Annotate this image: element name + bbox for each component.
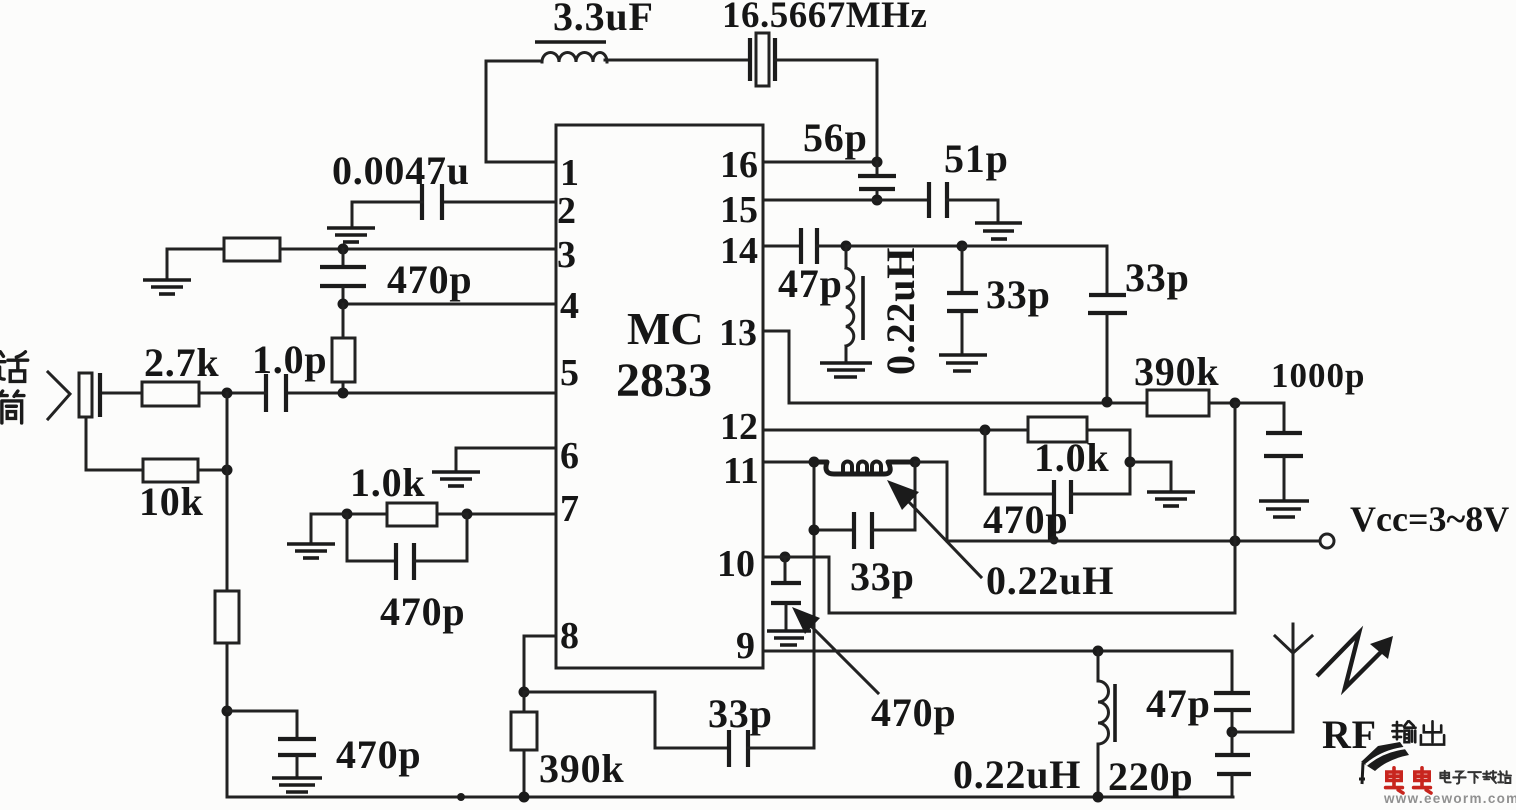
svg-text:10: 10 bbox=[717, 543, 755, 585]
svg-text:1.0p: 1.0p bbox=[252, 337, 327, 382]
glyph 筒 (of 话筒 mic label) bbox=[0, 391, 24, 423]
wire to ground right bbox=[1130, 462, 1171, 490]
node pin5 junction bbox=[338, 388, 349, 399]
wire tank to Vcc rail bbox=[915, 462, 947, 541]
wire pin11 bbox=[763, 461, 814, 464]
arrow callout for L3 0.22uH bbox=[887, 480, 981, 577]
capacitor C7 470p (parallel with R6) bbox=[347, 514, 467, 580]
svg-text:16: 16 bbox=[720, 144, 758, 186]
node antenna junction bbox=[1227, 727, 1238, 738]
wire 33p to pin11 rail bbox=[748, 747, 814, 750]
svg-text:1.0k: 1.0k bbox=[1034, 435, 1109, 480]
node 470p left junction bbox=[222, 706, 233, 717]
svg-text:16.5667MHz: 16.5667MHz bbox=[722, 0, 927, 36]
wire 47p to node bbox=[817, 245, 846, 248]
svg-text:3.3uF: 3.3uF bbox=[553, 0, 654, 39]
svg-text:220p: 220p bbox=[1108, 754, 1193, 799]
svg-text:11: 11 bbox=[723, 450, 759, 492]
svg-text:1.0k: 1.0k bbox=[350, 460, 425, 505]
wire pin9 bbox=[763, 650, 1232, 653]
ground at pin3 resistor bbox=[143, 280, 191, 294]
wire 0.0047u to ground bbox=[352, 202, 422, 226]
wire resistor to bottom rail bbox=[226, 643, 229, 797]
svg-text:56p: 56p bbox=[803, 115, 868, 160]
ground at pin12 network bbox=[1147, 492, 1195, 506]
wire pin10 bbox=[763, 556, 785, 559]
ground at 0.0047u bbox=[327, 228, 375, 242]
capacitor C2 470p (pin3-pin4) bbox=[320, 249, 366, 304]
wire pin13 bbox=[763, 331, 1147, 403]
svg-text:51p: 51p bbox=[944, 136, 1009, 181]
svg-text:47p: 47p bbox=[778, 261, 843, 306]
arrow callout for C9 470p bbox=[792, 607, 878, 693]
capacitor C15 33p (tank) bbox=[814, 462, 915, 549]
svg-text:7: 7 bbox=[560, 488, 579, 530]
capacitor C12 33p (series) bbox=[1088, 295, 1127, 403]
wire Vcc riser bbox=[1234, 403, 1237, 613]
wire pin1 loop to inductor bbox=[486, 61, 556, 162]
capacitor C6 470p (bottom left) bbox=[227, 711, 316, 776]
wire pin3 bbox=[280, 248, 556, 251]
node pin4 junction bbox=[338, 299, 349, 310]
svg-text:470p: 470p bbox=[871, 690, 956, 735]
wire to 33p no2 bbox=[962, 246, 1107, 293]
watermark cap swoosh bbox=[1359, 742, 1409, 784]
svg-text:33p: 33p bbox=[850, 554, 915, 599]
node 33p junction bbox=[957, 241, 968, 252]
IC U1 MC2833 body bbox=[556, 125, 763, 668]
crystal X1 16.5667MHz bbox=[750, 33, 775, 86]
svg-text:0.22uH: 0.22uH bbox=[986, 558, 1114, 603]
node transformer bottom junction bbox=[1093, 792, 1104, 803]
resistor R3 2.7k bbox=[142, 382, 199, 406]
capacitor C9 470p (pin10 to gnd) bbox=[771, 557, 801, 629]
node pin12 junction bbox=[980, 425, 991, 436]
svg-text:0.22uH: 0.22uH bbox=[953, 752, 1081, 797]
svg-text:Vcc=3~8V: Vcc=3~8V bbox=[1350, 499, 1509, 539]
node 390k right junction bbox=[1230, 398, 1241, 409]
svg-text:33p: 33p bbox=[986, 272, 1051, 317]
terminal Vcc bbox=[1320, 534, 1334, 548]
capacitor C14 470p (parallel with R9) bbox=[985, 430, 1130, 539]
capacitor C13 1000p bbox=[1235, 403, 1303, 499]
wire pin2 bbox=[442, 201, 556, 204]
wire pin16 bbox=[763, 161, 877, 164]
node pin10 junction bbox=[780, 552, 791, 563]
svg-text:MC: MC bbox=[627, 303, 704, 354]
svg-text:2: 2 bbox=[557, 190, 576, 232]
svg-text:47p: 47p bbox=[1146, 681, 1211, 726]
node pin8 junction bbox=[519, 687, 530, 698]
node pin9/transformer junction bbox=[1093, 646, 1104, 657]
capacitor C5 51p bbox=[929, 182, 947, 218]
wire pin8 down bbox=[524, 636, 556, 692]
node pin3/470p junction bbox=[338, 244, 349, 255]
wire mic to 2.7k bbox=[100, 392, 142, 395]
svg-text:14: 14 bbox=[720, 230, 758, 272]
svg-text:www.eeworm.com: www.eeworm.com bbox=[1383, 791, 1516, 805]
wire pin11 vertical rail bbox=[813, 462, 816, 748]
svg-text:470p: 470p bbox=[983, 497, 1068, 542]
resistor R7 390k (vertical) bbox=[511, 692, 537, 797]
label RF 输出 bbox=[1322, 712, 1377, 757]
antenna ANT symbol bbox=[1275, 624, 1312, 653]
svg-text:0.22uH: 0.22uH bbox=[878, 247, 923, 375]
svg-text:9: 9 bbox=[736, 625, 755, 667]
ground at pin6 bbox=[432, 472, 480, 486]
node 10k junction bbox=[222, 465, 233, 476]
wire 1.0k left to ground bbox=[311, 514, 347, 542]
svg-text:4: 4 bbox=[560, 285, 579, 327]
capacitor C16 47p (antenna) bbox=[1214, 651, 1251, 732]
resistor R8 390k (horizontal) bbox=[1147, 390, 1235, 416]
resistor R1 (pin3 bias) bbox=[224, 238, 280, 261]
svg-text:470p: 470p bbox=[380, 589, 465, 634]
node pin7 left junction bbox=[342, 509, 353, 520]
node rail speck bbox=[457, 793, 465, 801]
wire pin6 to ground bbox=[456, 448, 556, 470]
svg-text:1: 1 bbox=[560, 152, 579, 194]
ground at pin7 bbox=[287, 544, 335, 558]
capacitor C8 33p (pin8 coupling) bbox=[729, 730, 748, 767]
RF radiation zigzag arrow bbox=[1317, 633, 1393, 688]
node pin16/56p junction bbox=[872, 157, 883, 168]
wire antenna feed bbox=[1232, 653, 1293, 732]
svg-text:0.0047u: 0.0047u bbox=[332, 148, 470, 193]
wire mic bottom to 10k bbox=[86, 417, 143, 470]
wire Vcc rail bbox=[947, 540, 1320, 543]
wire pin15 to 51p bbox=[763, 199, 929, 202]
wire pin14 bbox=[763, 245, 801, 248]
resistor R5 (vertical left) bbox=[215, 591, 239, 643]
wire R9 right down bbox=[1129, 430, 1132, 494]
resistor R4 10k bbox=[143, 459, 198, 482]
node pin7 right junction bbox=[462, 509, 473, 520]
ground at C6 bbox=[272, 778, 322, 792]
capacitor C11 33p (to gnd) bbox=[947, 246, 978, 353]
svg-text:15: 15 bbox=[720, 189, 758, 231]
inductor L1 3.3uF coil bbox=[535, 42, 607, 62]
inductor L2 0.22uH (vertical) bbox=[846, 246, 863, 361]
svg-text:10k: 10k bbox=[139, 479, 204, 524]
node tank right junction bbox=[910, 457, 921, 468]
resistor R2 (pin4-pin5 vertical) bbox=[332, 304, 355, 393]
wire pin12 bbox=[763, 429, 1028, 432]
capacitor C10 47p bbox=[801, 228, 817, 264]
svg-text:12: 12 bbox=[720, 406, 758, 448]
svg-text:390k: 390k bbox=[539, 746, 624, 791]
wire pin14 node to 33p node bbox=[846, 245, 962, 248]
node pin11 junction bbox=[809, 457, 820, 468]
wire 51p to ground bbox=[947, 200, 998, 221]
node 56p/pin15 junction bbox=[872, 195, 883, 206]
svg-text:RF: RF bbox=[1322, 712, 1377, 757]
svg-text:8: 8 bbox=[560, 615, 579, 657]
glyph 话 (of 话筒 mic label) bbox=[0, 352, 28, 382]
wire 10k to node bbox=[198, 469, 227, 472]
ground at 1000p bbox=[1259, 501, 1309, 517]
capacitor C17 220p bbox=[1215, 732, 1251, 797]
ground at L2 bbox=[820, 363, 872, 377]
wire pin4 bbox=[343, 303, 556, 306]
node Vcc junction bbox=[1230, 536, 1241, 547]
watermark 电子下载站 bbox=[1440, 771, 1511, 784]
svg-text:33p: 33p bbox=[708, 691, 773, 736]
ground at 51p bbox=[975, 223, 1022, 239]
node R9 right junction bbox=[1125, 457, 1136, 468]
inductor L3 0.22uH (tank coil) bbox=[814, 462, 915, 475]
node tank cap left junction bbox=[809, 525, 820, 536]
node 390k bottom junction bbox=[519, 792, 530, 803]
svg-text:33p: 33p bbox=[1125, 255, 1190, 300]
transformer T1 0.22uH primary bbox=[1098, 651, 1115, 797]
svg-text:13: 13 bbox=[719, 312, 757, 354]
svg-text:470p: 470p bbox=[387, 257, 472, 302]
glyph 输 (of RF 输出) bbox=[1392, 721, 1415, 742]
svg-text:2.7k: 2.7k bbox=[144, 340, 219, 385]
wire 1.0p to 2.7k bbox=[199, 392, 266, 395]
watermark 虫虫 red glyphs bbox=[1386, 768, 1431, 793]
capacitor C3 1.0p bbox=[266, 374, 286, 412]
wire pin7 bbox=[467, 513, 556, 516]
wire bottom rail bbox=[227, 796, 1233, 799]
node mic/2.7k junction bbox=[222, 388, 233, 399]
resistor R6 1.0k (pin7) bbox=[347, 503, 467, 526]
node pin14 tank junction bbox=[841, 241, 852, 252]
svg-text:5: 5 bbox=[560, 352, 579, 394]
svg-text:3: 3 bbox=[557, 234, 576, 276]
wire vertical mic bias rail bbox=[226, 393, 229, 591]
wire pin8 node to 33p bbox=[524, 692, 729, 748]
node C14 plate on Vcc rail bbox=[1050, 536, 1059, 545]
glyph 出 (of RF 输出) bbox=[1421, 721, 1444, 744]
ground at pin10 cap bbox=[767, 631, 811, 645]
ground at C11 bbox=[939, 355, 987, 371]
svg-text:390k: 390k bbox=[1134, 349, 1219, 394]
svg-text:6: 6 bbox=[560, 435, 579, 477]
wire pin5 bbox=[286, 392, 556, 395]
microphone MIC 话筒 symbol bbox=[48, 372, 100, 419]
wire pin10 to Vcc riser bbox=[785, 557, 1235, 613]
capacitor C4 56p bbox=[858, 162, 896, 200]
wire coil to crystal bbox=[605, 59, 750, 62]
capacitor C1 0.0047u bbox=[422, 184, 442, 220]
svg-text:470p: 470p bbox=[336, 732, 421, 777]
wire resistor to ground bbox=[167, 249, 224, 278]
svg-text:1000p: 1000p bbox=[1271, 356, 1365, 395]
node pin13/C12 junction bbox=[1102, 397, 1113, 408]
resistor R9 1.0k (pin12) bbox=[1028, 417, 1130, 442]
wire crystal to 56p node bbox=[775, 60, 877, 162]
svg-text:2833: 2833 bbox=[616, 354, 712, 407]
